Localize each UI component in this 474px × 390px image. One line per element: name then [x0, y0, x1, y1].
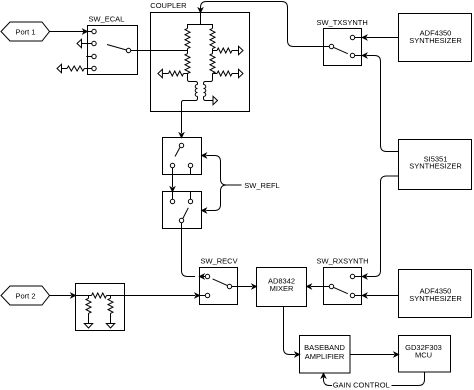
- wire TX feed into coupler: [198, 8, 202, 24]
- resistor SW_ECAL load: [57, 64, 96, 72]
- wire coupler output down to SW_REFL: [179, 97, 197, 138]
- block ADF4350 SYNTHESIZER bottom: [399, 270, 472, 318]
- SW_TXSYNTH throw 2: [350, 53, 361, 57]
- resistor bridge R1: [185, 28, 190, 48]
- label BASEBAND AMPLIFIER: [304, 343, 345, 361]
- wire transformer secondary out: [204, 96, 218, 104]
- svg-text:Port 1: Port 1: [15, 28, 35, 37]
- wire attenuator to SW_RECV: [125, 293, 200, 297]
- svg-text:SYNTHESIZER: SYNTHESIZER: [409, 36, 462, 45]
- resistor attenuator shunt right: [106, 296, 114, 329]
- node Port 1: [1, 22, 50, 41]
- transformer T1 secondary winding: [204, 85, 206, 97]
- wire Port 2 to attenuator: [50, 293, 76, 297]
- svg-text:MCU: MCU: [415, 351, 432, 360]
- resistor coupler bottom left: [158, 69, 188, 77]
- SW_ECAL throw pin 2 wire: [77, 39, 96, 47]
- label ADF4350 bottom: [409, 287, 462, 303]
- svg-text:AMPLIFIER: AMPLIFIER: [305, 352, 345, 361]
- switch box SW_RXSYNTH: [324, 268, 362, 305]
- resistor bridge R4: [210, 49, 215, 74]
- label SW_RXSYNTH: [317, 257, 369, 266]
- SW_ECAL pole and arm: [107, 45, 131, 53]
- label AD8342 MIXER: [268, 277, 295, 293]
- label SW_REFL: [244, 181, 279, 190]
- SW_RECV throw 2: [200, 293, 210, 297]
- SW_RXSYNTH throw 2: [350, 293, 361, 297]
- wire Port 1 to SW_ECAL: [50, 29, 88, 33]
- block AD8342 MIXER: [257, 268, 307, 307]
- wire GAIN CONTROL: [321, 372, 424, 386]
- svg-text:SW_RXSYNTH: SW_RXSYNTH: [317, 257, 369, 266]
- transformer T1 primary winding: [195, 85, 197, 97]
- label SW_ECAL: [89, 15, 125, 24]
- wire SW_RECV to mixer: [232, 284, 257, 288]
- svg-text:SW_RECV: SW_RECV: [201, 257, 238, 266]
- resistor coupler tap right: [213, 46, 244, 54]
- svg-text:BASEBAND: BASEBAND: [304, 343, 345, 352]
- wire mixer to baseband amplifier: [284, 307, 300, 357]
- wire baseband to MCU: [350, 352, 399, 356]
- wire attenuator through line: [76, 295, 125, 297]
- label SW_TXSYNTH: [317, 18, 368, 27]
- wire SI5351 to SW_RXSYNTH: [362, 176, 398, 279]
- SW_RECV throw 1: [200, 274, 210, 278]
- svg-text:SW_ECAL: SW_ECAL: [89, 15, 125, 24]
- SW_TXSYNTH pole and arm: [329, 44, 348, 53]
- SW_ECAL throw pin 1: [88, 29, 97, 33]
- svg-text:SW_REFL: SW_REFL: [244, 181, 279, 190]
- switch box SW_REFL lower: [163, 192, 202, 229]
- resistor bridge R3: [210, 28, 215, 48]
- SW_REFL upper throw left: [170, 163, 174, 191]
- switch box SW_RECV: [200, 268, 238, 305]
- wire SW_ECAL pole to coupler bridge: [131, 50, 188, 52]
- label ADF4350 top: [409, 29, 462, 45]
- label SI5351: [409, 154, 462, 170]
- resistor attenuator shunt left: [84, 296, 92, 329]
- label GD32F303 MCU: [405, 343, 442, 360]
- wire ADF4350 to SW_TXSYNTH: [362, 35, 398, 39]
- SW_REFL upper pole and arm: [175, 143, 184, 156]
- SW_REFL lower throw right: [188, 192, 192, 204]
- svg-text:SYNTHESIZER: SYNTHESIZER: [409, 294, 462, 303]
- switch box SW_TXSYNTH: [324, 29, 362, 66]
- svg-text:Port 2: Port 2: [15, 292, 35, 301]
- wire SW_TXSYNTH pole to coupler top: [201, 2, 330, 47]
- wire bridge right leg to transformer: [204, 74, 213, 85]
- resistor bridge R2: [185, 49, 190, 74]
- node Port 2: [1, 286, 50, 305]
- svg-text:SW_TXSYNTH: SW_TXSYNTH: [317, 18, 368, 27]
- SW_REFL lower throw left: [170, 192, 174, 204]
- SW_ECAL throw pin 3 stub: [86, 54, 96, 58]
- label COUPLER: [150, 1, 187, 10]
- block ADF4350 SYNTHESIZER top: [399, 14, 472, 62]
- wire bridge left leg to transformer: [188, 74, 198, 85]
- svg-text:MIXER: MIXER: [270, 284, 294, 293]
- block SI5351 SYNTHESIZER: [399, 140, 472, 190]
- resistor coupler bottom right: [213, 69, 244, 77]
- SW_RECV pole and arm: [213, 279, 232, 289]
- label GAIN CONTROL: [332, 381, 392, 390]
- wire SI5351 to SW_TXSYNTH: [362, 53, 398, 151]
- wire SW_RXSYNTH pole to mixer: [307, 284, 330, 288]
- label SW_RECV: [201, 257, 238, 266]
- SW_TXSYNTH throw 1: [350, 35, 361, 39]
- svg-text:SYNTHESIZER: SYNTHESIZER: [409, 162, 462, 171]
- svg-text:COUPLER: COUPLER: [150, 1, 187, 10]
- switch box SW_REFL upper: [163, 138, 202, 175]
- block GD32F303 MCU: [399, 336, 451, 373]
- wire ADF4350 bottom to SW_RXSYNTH: [362, 293, 398, 297]
- svg-text:GAIN CONTROL: GAIN CONTROL: [333, 381, 390, 390]
- coupler bridge top bar: [188, 25, 213, 29]
- switch box SW_ECAL: [88, 26, 138, 75]
- wire SW_REFL control brace: [202, 153, 242, 212]
- SW_REFL upper throw right: [188, 163, 192, 174]
- resistor attenuator series: [92, 293, 107, 298]
- SW_REFL lower pole and arm: [179, 208, 188, 223]
- coupler box COUPLER: [151, 13, 250, 112]
- attenuator box: [76, 284, 125, 331]
- block BASEBAND AMPLIFIER: [300, 336, 351, 374]
- SW_RXSYNTH throw 1: [350, 274, 361, 278]
- SW_RXSYNTH pole and arm: [329, 284, 348, 293]
- wire SW_REFL to SW_RECV: [182, 223, 204, 279]
